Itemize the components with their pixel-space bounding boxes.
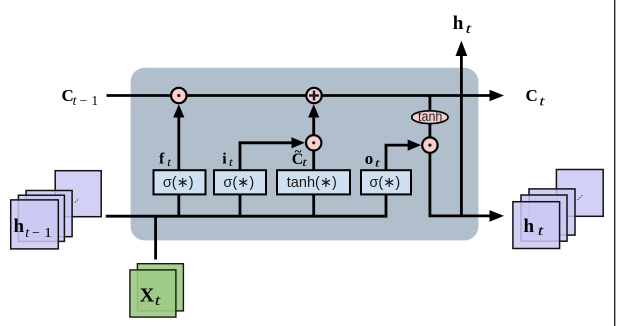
- svg-text:−: −: [80, 93, 88, 108]
- svg-text:σ(∗): σ(∗): [163, 175, 194, 191]
- svg-text:tanh(∗): tanh(∗): [287, 175, 337, 191]
- svg-text:−: −: [32, 226, 40, 241]
- svg-text:σ(∗): σ(∗): [223, 175, 254, 191]
- svg-text:h: h: [524, 216, 535, 237]
- svg-text:~: ~: [295, 144, 302, 159]
- svg-text:C: C: [526, 86, 538, 105]
- svg-text:σ(∗): σ(∗): [369, 175, 400, 191]
- svg-text:1: 1: [44, 226, 52, 241]
- svg-text:i: i: [222, 151, 227, 168]
- svg-text:h: h: [453, 13, 464, 34]
- svg-text:f: f: [159, 151, 165, 168]
- svg-text:h: h: [14, 216, 25, 237]
- svg-text:1: 1: [91, 93, 98, 108]
- svg-text:o: o: [365, 149, 374, 168]
- svg-text:X: X: [140, 284, 155, 306]
- svg-text:tanh: tanh: [418, 109, 442, 124]
